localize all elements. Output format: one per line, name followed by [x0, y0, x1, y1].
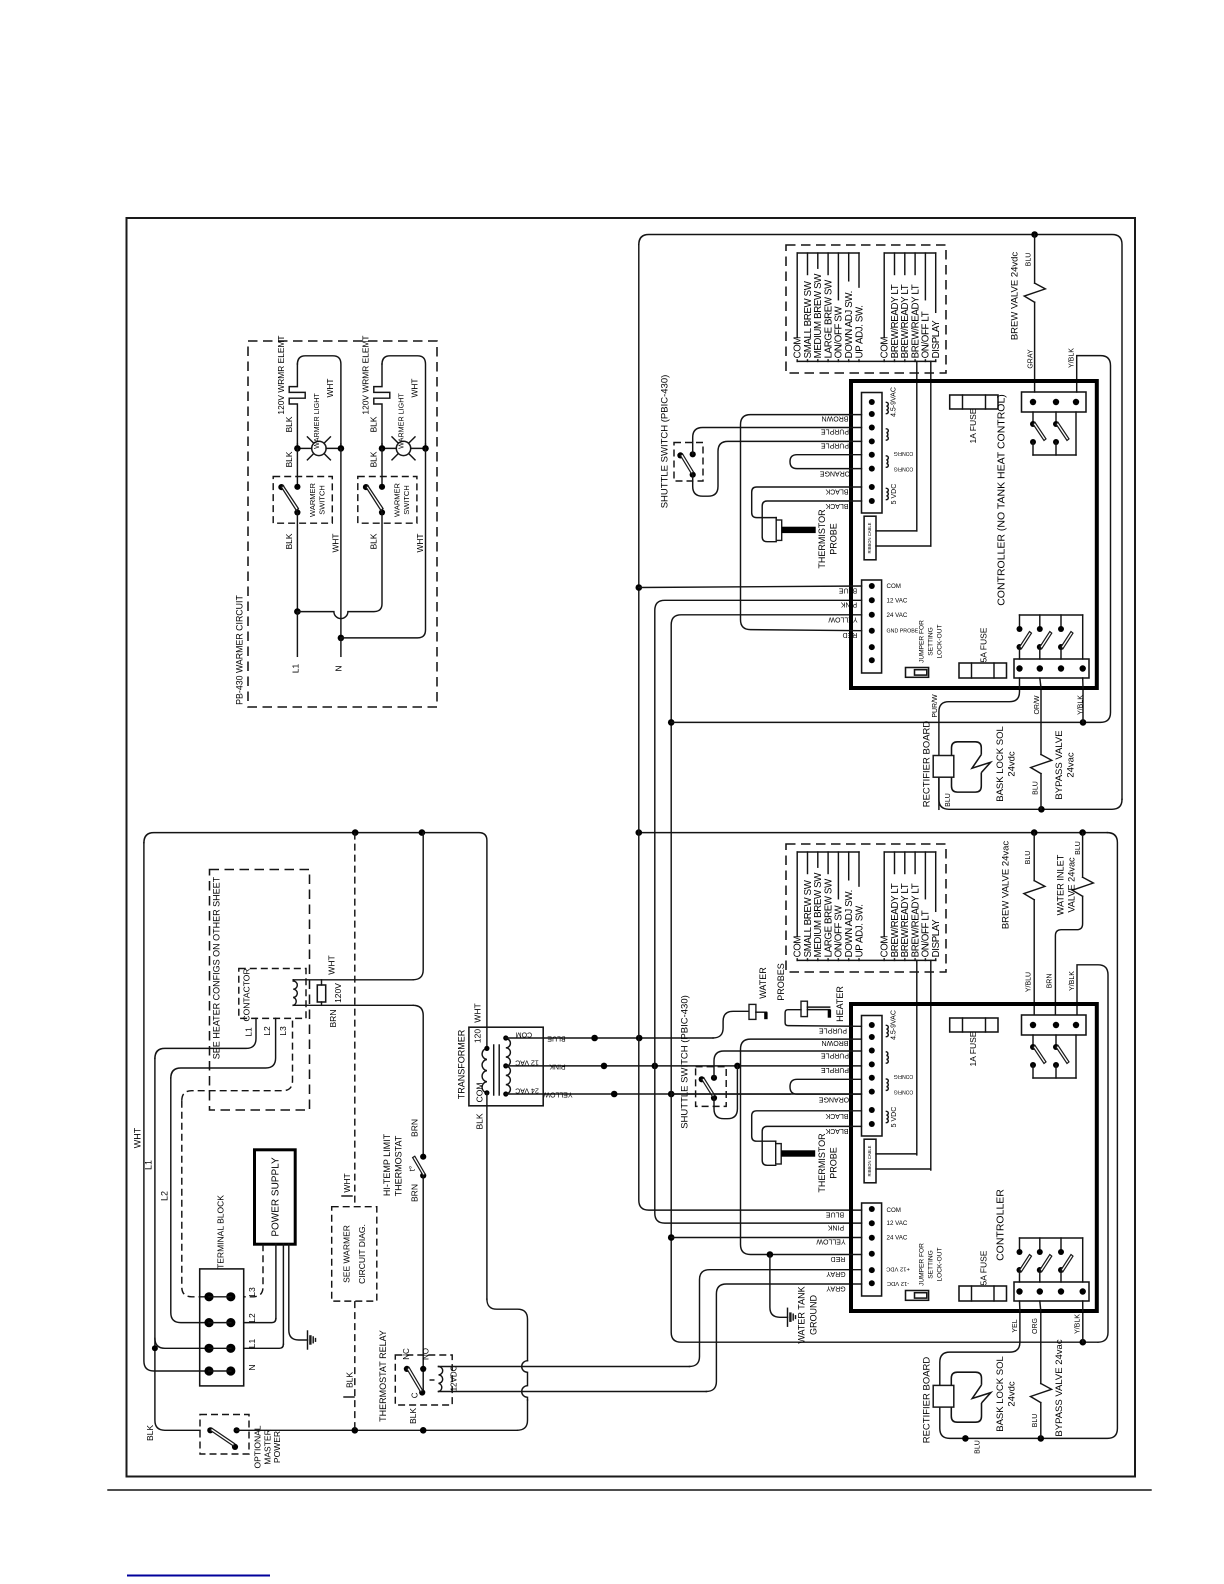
controller box oy=623 [851, 1004, 1097, 1311]
svg-text:PINK: PINK [549, 1063, 566, 1070]
hairpin jumper J1b pins 5-6 [790, 1079, 861, 1094]
120V fuse rect on link [321, 980, 323, 985]
PINK rail x=654.8 [655, 600, 862, 1223]
membrane switch dashed box oy=599 [786, 844, 946, 972]
svg-text:4.5-9VAC: 4.5-9VAC [890, 387, 897, 417]
warmer ch1 WHT wire down to N node [340, 448, 342, 638]
shuttle switch 1 dashed box [674, 443, 703, 482]
secondary 24VAC wire YELLOW [543, 1093, 861, 1095]
membrane wire BREW/READY LT oy=599 [914, 852, 916, 874]
svg-text:ORANGE: ORANGE [819, 1096, 850, 1103]
svg-text:RECTIFIER BOARD: RECTIFIER BOARD [922, 1357, 933, 1444]
membrane top bus left group oy=0 [797, 252, 859, 254]
svg-text:THERMISTOR: THERMISTOR [817, 509, 827, 569]
svg-text:WARMER: WARMER [308, 482, 317, 516]
svg-text:BLK: BLK [369, 451, 379, 467]
svg-text:WHT: WHT [410, 378, 420, 397]
svg-text:JUMPER FOR: JUMPER FOR [919, 620, 926, 663]
terminal block contacts [204, 1292, 213, 1301]
svg-text:SETTING: SETTING [928, 627, 935, 656]
svg-text:t°: t° [408, 1166, 417, 1171]
svg-text:BRN: BRN [1046, 974, 1053, 989]
membrane wire DISPLAY oy=0 [935, 253, 937, 312]
TERMINAL BLOCK rect [200, 1269, 244, 1386]
ribbon cable wires oy=0 [876, 530, 917, 532]
membrane wire MEDIUM BREW SW oy=0 [817, 253, 819, 268]
svg-text:PROBES: PROBES [776, 963, 786, 1001]
svg-text:NC: NC [402, 1348, 411, 1360]
svg-text:TRANSFORMER: TRANSFORMER [457, 1029, 467, 1099]
svg-text:PURPLE: PURPLE [821, 442, 849, 449]
svg-text:L1: L1 [144, 1160, 154, 1170]
ribbon cable wires oy=623 [876, 1153, 917, 1155]
svg-text:BLK: BLK [284, 451, 294, 467]
connector J2 oy=623 [862, 1203, 882, 1296]
membrane wire COM oy=599 [796, 852, 798, 937]
transformer core [493, 1045, 495, 1095]
BREW VALVE bottom section [1033, 833, 1035, 881]
BREW VALVE top section [1034, 235, 1036, 284]
svg-text:BLU: BLU [945, 793, 952, 807]
membrane top bus left group oy=599 [797, 851, 859, 853]
warmer ch1 BLK wire to L1 node [296, 512, 298, 611]
membrane wire DISPLAY oy=599 [935, 852, 937, 911]
hi-temp thermostat switch [420, 1154, 426, 1160]
svg-text:RECTIFIER BOARD: RECTIFIER BOARD [922, 721, 933, 808]
rectifier1 to bus BLU [938, 777, 940, 809]
BLK bus to thermostat relay and transformer [237, 1429, 518, 1431]
svg-text:CIRCUIT DIAG.: CIRCUIT DIAG. [357, 1224, 367, 1284]
shuttle2 contacts and blade [699, 1076, 705, 1082]
ribbon cable rect oy=623 [864, 1139, 876, 1183]
svg-text:WHT: WHT [415, 533, 425, 552]
svg-text:Y/BLK: Y/BLK [1069, 348, 1076, 368]
bottom section top edge y=832 corner to spine [940, 833, 1118, 1439]
water probe 1 symbol [749, 1004, 756, 1019]
svg-text:5A FUSE: 5A FUSE [978, 1250, 988, 1285]
element top hairpin @0 [297, 356, 341, 444]
membrane wire COM oy=599 [883, 852, 885, 937]
svg-text:120V WRMR ELEMT: 120V WRMR ELEMT [361, 335, 371, 414]
WHT neutral bus horizontal [144, 833, 487, 1049]
svg-text:BLK: BLK [408, 1408, 418, 1424]
PURPLE wire J1-4 from shuttle1 lower [693, 441, 862, 496]
svg-text:L2: L2 [262, 1026, 272, 1036]
warmer switch contacts @84.6 [381, 448, 383, 486]
svg-text:HI-TEMP LIMIT: HI-TEMP LIMIT [382, 1133, 392, 1196]
ribbon drop wires oy=0 [916, 361, 918, 531]
svg-text:GRAY: GRAY [1027, 349, 1034, 369]
svg-text:Y/BLU: Y/BLU [1025, 972, 1032, 992]
relay 1A block oy=623 [1022, 1015, 1087, 1035]
top Y/BLK link loop [671, 356, 1110, 723]
connector J1 oy=0 [862, 393, 883, 514]
YELLOW rail tap to J2b 24VAC [671, 1237, 861, 1239]
svg-text:BREW VALVE 24vdc: BREW VALVE 24vdc [1009, 252, 1020, 341]
secondary taps [506, 1037, 543, 1039]
svg-text:THERMOSTAT RELAY: THERMOSTAT RELAY [378, 1330, 388, 1422]
svg-text:L1: L1 [243, 1027, 253, 1037]
J1 coil symbols oy=623 [886, 1025, 888, 1036]
svg-text:120: 120 [472, 1029, 482, 1043]
warmer element ch @84.6 [374, 364, 390, 444]
PURPLE wire J1b-3 from shuttle2 [714, 1051, 861, 1078]
svg-text:+12 VDC: +12 VDC [886, 1266, 910, 1272]
N lead [340, 638, 342, 656]
1A FUSE oy=0 [950, 395, 998, 409]
svg-text:RED: RED [831, 1255, 846, 1262]
svg-text:CONFIG: CONFIG [894, 465, 914, 471]
svg-text:1A FUSE: 1A FUSE [968, 408, 978, 443]
svg-text:PURPLE: PURPLE [819, 1027, 847, 1034]
svg-text:WARMER LIGHT: WARMER LIGHT [397, 393, 406, 449]
svg-text:24 VAC: 24 VAC [515, 1086, 539, 1093]
L1 rail tap to terminal block [155, 1338, 209, 1348]
svg-text:BLK: BLK [369, 533, 379, 549]
svg-text:Y/BLK: Y/BLK [1077, 695, 1084, 715]
element top hairpin @84.6 [382, 356, 426, 444]
svg-text:JUMPER FOR: JUMPER FOR [919, 1243, 926, 1286]
BYPASS VALVE bottom section [1040, 1311, 1042, 1384]
5A FUSE oy=623 [959, 1286, 1007, 1301]
membrane wire LARGE BREW SW oy=0 [827, 253, 829, 275]
footer rule [108, 1489, 1151, 1491]
svg-text:120V WRMR ELEMT: 120V WRMR ELEMT [276, 335, 286, 414]
footer link underline [127, 1575, 270, 1577]
warmer switch contacts @0 [296, 448, 298, 486]
warmer switch dashed box @84.6 [358, 477, 417, 524]
svg-text:VALVE 24vac: VALVE 24vac [1067, 857, 1077, 913]
svg-text:WARMER LIGHT: WARMER LIGHT [312, 393, 321, 449]
membrane wire BREW/READY LT oy=599 [894, 852, 896, 874]
relay 5A block oy=0 [1014, 659, 1089, 678]
svg-text:PURPLE: PURPLE [821, 1052, 849, 1059]
svg-text:12 VAC: 12 VAC [515, 1058, 539, 1065]
dashed warmer feed line WHT/BLK [354, 833, 356, 1207]
svg-text:SHUTTLE SWITCH (PBIC-430): SHUTTLE SWITCH (PBIC-430) [660, 375, 671, 509]
svg-text:BLACK: BLACK [825, 488, 848, 495]
svg-text:5 VDC: 5 VDC [891, 1107, 898, 1128]
bottom Y/BLK lower from relay [1082, 1311, 1084, 1342]
membrane wire LARGE BREW SW oy=599 [827, 852, 829, 874]
contactor coil bottom wire BRN [293, 1004, 413, 1006]
svg-text:BLU: BLU [1075, 841, 1082, 855]
contactor coil arcs [293, 980, 297, 1006]
BASK LOCK SOL flag top [952, 742, 982, 792]
L1 wire to ch2 with hop over WHT [297, 512, 382, 618]
svg-text:BLK: BLK [369, 416, 379, 432]
svg-text:YELLOW: YELLOW [828, 616, 858, 623]
svg-text:WHT: WHT [342, 1173, 352, 1192]
svg-text:L3: L3 [278, 1026, 288, 1036]
svg-text:12 VAC: 12 VAC [887, 597, 908, 604]
jumper for lock-out oy=0 [906, 668, 929, 678]
BLUE wire J2-1 top [639, 586, 862, 588]
svg-text:PURPLE: PURPLE [821, 1066, 849, 1073]
BROWN wire J1-2 top [741, 415, 862, 631]
svg-text:24vdc: 24vdc [1007, 1381, 1018, 1407]
shuttle2 lower loop to 12VAC wire [714, 1066, 737, 1119]
svg-text:BRN: BRN [409, 1119, 419, 1137]
J1 coil symbols oy=0 [886, 402, 888, 413]
svg-text:WHT: WHT [133, 1127, 143, 1148]
svg-text:UP ADJ. SW.: UP ADJ. SW. [854, 904, 865, 957]
svg-text:WATER TANK: WATER TANK [797, 1286, 807, 1343]
svg-text:BLACK: BLACK [825, 1127, 848, 1134]
svg-text:BLACK: BLACK [825, 1112, 848, 1119]
shuttle1 contacts and blade [677, 452, 683, 458]
ribbon drop wires oy=599 [916, 960, 918, 1155]
relay 1A block oy=0 [1022, 392, 1087, 412]
svg-text:BLU: BLU [1032, 1414, 1039, 1428]
YELLOW rail x=671 [671, 615, 1098, 1342]
RECTIFIER BOARD square bottom [933, 1385, 954, 1407]
svg-text:LOCK-OUT: LOCK-OUT [937, 624, 944, 658]
svg-text:YELLOW: YELLOW [816, 1238, 846, 1245]
svg-text:C: C [410, 1392, 419, 1398]
svg-text:PINK: PINK [841, 601, 858, 608]
svg-text:120V: 120V [333, 983, 343, 1003]
controller box oy=0 [851, 381, 1097, 688]
svg-text:GRAY: GRAY [826, 1285, 846, 1292]
svg-text:SEE HEATER CONFIGS ON OTHER SH: SEE HEATER CONFIGS ON OTHER SHEET [212, 876, 222, 1059]
L3 dashed rail [182, 1018, 293, 1100]
svg-text:BLUE: BLUE [839, 587, 858, 594]
svg-text:POWER: POWER [272, 1431, 282, 1463]
svg-text:THERMISTOR: THERMISTOR [817, 1133, 827, 1193]
lamp wires and junction dots @84.6 [381, 444, 383, 448]
svg-text:YEL: YEL [1012, 1319, 1019, 1332]
relay 5A block oy=623 [1014, 1282, 1089, 1301]
OPTIONAL MASTER POWER dashed box [200, 1415, 249, 1455]
svg-text:POWER SUPPLY: POWER SUPPLY [270, 1157, 281, 1237]
svg-text:BLACK: BLACK [825, 502, 848, 509]
svg-text:COM: COM [474, 1083, 484, 1103]
membrane wire ON/OFF SW oy=599 [837, 852, 839, 899]
svg-text:DISPLAY: DISPLAY [931, 919, 942, 958]
svg-text:CONFIG: CONFIG [894, 1073, 914, 1079]
membrane wire BREW/READY LT oy=0 [914, 253, 916, 275]
svg-text:WHT: WHT [327, 955, 337, 974]
WATER INLET VALVE bottom section [1082, 833, 1084, 878]
thermistor probe bottom [776, 1144, 782, 1164]
secondary 12VAC wire PINK [543, 1065, 861, 1067]
membrane switch dashed box oy=0 [786, 245, 946, 373]
svg-text:L2: L2 [247, 1313, 257, 1323]
lamp wires and junction dots @0 [296, 444, 298, 448]
svg-text:L1: L1 [247, 1339, 257, 1349]
connector J2 oy=0 [862, 580, 882, 673]
svg-text:GRAY: GRAY [826, 1270, 846, 1277]
svg-text:OR/W: OR/W [1034, 695, 1041, 714]
thermostat relay contacts NC NO C [404, 1366, 410, 1372]
svg-text:Y/BLK: Y/BLK [1075, 1314, 1082, 1334]
connector J1 oy=623 [862, 1016, 883, 1137]
svg-text:SHUTTLE SWITCH (PBIC-430): SHUTTLE SWITCH (PBIC-430) [680, 995, 691, 1129]
membrane bottom bus oy=0 [797, 360, 936, 362]
L2 rail [171, 1018, 276, 1078]
svg-text:UP ADJ. SW.: UP ADJ. SW. [854, 305, 865, 358]
secondary COM wire BLUE to section rail and probe1 [543, 1037, 713, 1039]
svg-text:BLK: BLK [284, 416, 294, 432]
svg-text:BLK: BLK [145, 1425, 155, 1441]
relay1 bottom wires OR/W YBLK exit [1040, 678, 1041, 688]
svg-text:12 VAC: 12 VAC [887, 1220, 908, 1227]
water probe 1 wire from COM [713, 1011, 749, 1038]
THERMOSTAT RELAY dashed box [395, 1355, 452, 1405]
transformer primary coil [482, 1048, 487, 1092]
BYPASS VALVE top section [1040, 688, 1042, 755]
contactor coil top wire WHT [293, 979, 413, 981]
water tank ground symbol [787, 1308, 789, 1326]
svg-text:CONTACTOR: CONTACTOR [241, 968, 251, 1021]
N wire to ch2 WHT [341, 448, 426, 638]
svg-text:BLU: BLU [1025, 851, 1032, 865]
membrane wire DOWN ADJ SW. oy=599 [848, 852, 850, 880]
svg-text:DISPLAY: DISPLAY [931, 320, 942, 359]
svg-text:BYPASS VALVE: BYPASS VALVE [1054, 730, 1065, 799]
svg-text:L1: L1 [290, 664, 300, 674]
svg-text:5 VDC: 5 VDC [891, 484, 898, 505]
RED wire to water tank ground [770, 1255, 788, 1318]
transformer secondary coil [506, 1038, 511, 1094]
svg-text:SWITCH: SWITCH [318, 485, 327, 515]
membrane wire MEDIUM BREW SW oy=599 [817, 852, 819, 867]
ORANGE wire to hairpin from 24VAC rail [671, 1093, 790, 1095]
svg-text:OPTIONAL: OPTIONAL [252, 1425, 262, 1468]
svg-text:BASK LOCK SOL: BASK LOCK SOL [995, 1356, 1006, 1432]
POWER SUPPLY box [255, 1150, 296, 1244]
svg-text:RIBBON CABLE: RIBBON CABLE [867, 1145, 872, 1176]
warmer light lamp @0 [307, 437, 315, 445]
BRN rail thermostat to relay NO [422, 1176, 424, 1393]
svg-text:CONTROLLER: CONTROLLER [995, 1189, 1007, 1261]
svg-text:L3: L3 [247, 1287, 257, 1297]
svg-text:CONFIG: CONFIG [894, 450, 914, 456]
warmer element ch @0 [289, 364, 305, 444]
membrane wire ON/OFF LT oy=599 [924, 852, 926, 899]
BLACK wires to thermistor bottom [752, 1111, 862, 1141]
svg-text:Y/BLK: Y/BLK [1069, 971, 1076, 991]
master power switch contacts [207, 1427, 213, 1433]
svg-text:TERMINAL BLOCK: TERMINAL BLOCK [215, 1195, 225, 1269]
transformer BLK lead hops over 12VDC wires [522, 1361, 528, 1400]
top section top edge [639, 235, 1122, 800]
svg-text:BLK: BLK [344, 1372, 354, 1388]
RECTIFIER BOARD square top [933, 756, 954, 778]
svg-text:SETTING: SETTING [928, 1250, 935, 1279]
membrane bottom bus oy=599 [797, 959, 936, 961]
L1/BLK rail [155, 1018, 256, 1058]
12VDC coil wires to controller GRAY [439, 1366, 690, 1368]
svg-text:12VDC: 12VDC [449, 1365, 458, 1391]
top section bottom edge to spine [939, 777, 1122, 809]
svg-text:COM: COM [887, 1207, 901, 1214]
top Y/BLK lower from relay [1082, 688, 1084, 722]
svg-text:GROUND: GROUND [809, 1295, 819, 1335]
svg-text:LOCK-OUT: LOCK-OUT [937, 1247, 944, 1281]
water probe 2 symbol [801, 1001, 807, 1016]
svg-text:WHT: WHT [472, 1003, 482, 1022]
membrane wire BREW/READY LT oy=0 [894, 253, 896, 275]
power supply leads to terminal block [244, 1244, 263, 1297]
BLU left rail top section to J2b COM [639, 245, 862, 1211]
svg-text:BLU: BLU [1026, 253, 1033, 267]
svg-text:THERMOSTAT: THERMOSTAT [394, 1135, 404, 1196]
svg-text:CONTROLLER (NO TANK HEAT CONTR: CONTROLLER (NO TANK HEAT CONTROL) [996, 394, 1008, 606]
svg-text:PURPLE: PURPLE [821, 428, 849, 435]
warmer light lamp @84.6 [392, 437, 400, 445]
svg-text:PINK: PINK [828, 1224, 845, 1231]
heater element symbol [807, 1006, 829, 1008]
membrane wire BREW/READY LT oy=599 [904, 852, 906, 874]
svg-text:BLK: BLK [474, 1113, 484, 1129]
SEE HEATER CONFIGS dashed box [210, 870, 310, 1111]
TRANSFORMER box [469, 1027, 543, 1106]
svg-text:-12 VDC: -12 VDC [887, 1280, 909, 1286]
PB-430 warmer circuit dashed box [248, 341, 437, 707]
svg-text:24vac: 24vac [1066, 752, 1077, 778]
svg-text:BLU: BLU [974, 1440, 981, 1454]
PUR/W wire top to rectifier [939, 688, 1020, 756]
border frame [127, 218, 1136, 1477]
svg-text:MASTER: MASTER [262, 1429, 272, 1464]
power supply ground lead [289, 1244, 308, 1340]
5A FUSE oy=0 [959, 663, 1007, 678]
svg-text:SEE WARMER: SEE WARMER [341, 1225, 351, 1283]
membrane wire SMALL BREW SW oy=0 [807, 253, 809, 275]
svg-text:1A FUSE: 1A FUSE [968, 1031, 978, 1066]
membrane top bus right group oy=599 [884, 851, 936, 853]
svg-text:CONFIG: CONFIG [894, 1088, 914, 1094]
svg-text:BLUE: BLUE [826, 1211, 845, 1218]
svg-text:BREW VALVE 24vac: BREW VALVE 24vac [1001, 841, 1012, 930]
svg-text:PROBE: PROBE [829, 1147, 839, 1179]
svg-text:L2: L2 [160, 1191, 170, 1201]
BROWN wire J1b-2 loop to J2b RED row [741, 1039, 862, 1254]
svg-text:GND PROBE: GND PROBE [887, 629, 919, 635]
L1 lead [296, 612, 298, 657]
chassis ground symbol power supply [307, 1331, 309, 1349]
membrane wire BREW/READY LT oy=0 [904, 253, 906, 275]
bottom section top edge BLU bus [639, 832, 1108, 834]
svg-text:WHT: WHT [330, 533, 340, 552]
svg-text:BLUE: BLUE [547, 1035, 566, 1042]
svg-text:ORG: ORG [1032, 1318, 1039, 1334]
membrane wire ON/OFF LT oy=0 [924, 253, 926, 300]
WHT rail down to terminal N [144, 843, 209, 1371]
thermistor probe top [776, 520, 782, 540]
junction dots on WHT bus [352, 829, 359, 836]
svg-text:24 VAC: 24 VAC [887, 1235, 908, 1242]
svg-text:4.5-9VAC: 4.5-9VAC [890, 1010, 897, 1040]
svg-text:N: N [333, 665, 343, 671]
PURPLE wire J1-3 from shuttle1 [693, 428, 862, 455]
shuttle switch 2 dashed box [696, 1067, 727, 1107]
CONTACTOR dashed box [239, 969, 306, 1019]
svg-text:N: N [247, 1364, 257, 1370]
svg-text:24 VAC: 24 VAC [887, 612, 908, 619]
membrane top bus right group oy=0 [884, 252, 936, 254]
membrane wire SMALL BREW SW oy=599 [807, 852, 809, 874]
membrane wire UP ADJ. SW. oy=599 [858, 852, 860, 886]
SEE WARMER CIRCUIT DIAG dashed box [332, 1207, 377, 1301]
membrane wire UP ADJ. SW. oy=0 [858, 253, 860, 287]
water probe 2 wire to J1b-1 PURPLE [785, 1010, 861, 1027]
svg-text:PB-430 WARMER CIRCUIT: PB-430 WARMER CIRCUIT [235, 595, 245, 705]
membrane wire DOWN ADJ SW. oy=0 [848, 253, 850, 281]
svg-text:5A FUSE: 5A FUSE [978, 627, 988, 662]
